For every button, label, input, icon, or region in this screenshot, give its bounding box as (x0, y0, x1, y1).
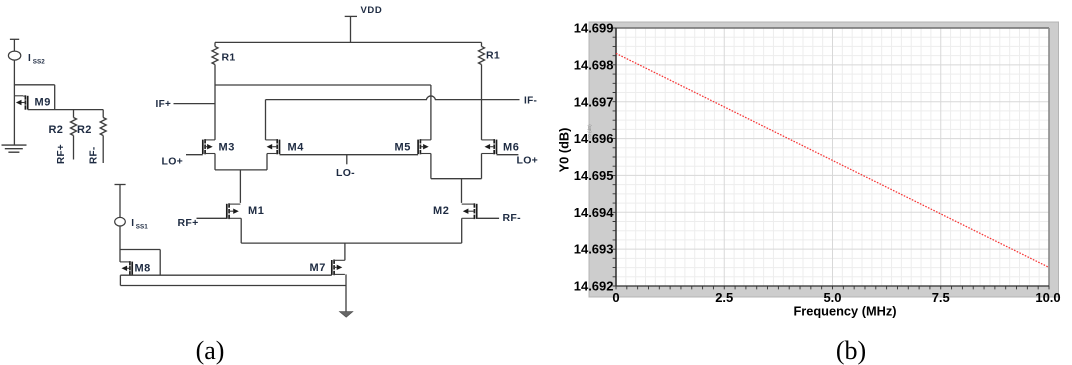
transistor M5 (417, 140, 419, 155)
resistor R2 right (102, 110, 104, 118)
node LO- wire (280, 154, 419, 156)
svg-text:M2: M2 (433, 205, 449, 217)
svg-text:Y0 (dB): Y0 (dB) (557, 128, 572, 173)
node LO+ right (497, 154, 519, 156)
svg-text:RF-: RF- (89, 146, 100, 164)
red trace Y0 vs frequency (616, 53, 1049, 267)
svg-text:M1: M1 (248, 205, 264, 217)
VDD supply (345, 15, 357, 17)
svg-text:14.692: 14.692 (574, 279, 614, 294)
wire gate bus M8 to M7 (120, 274, 331, 276)
wire M9 gate stub (14, 95, 23, 97)
svg-text:(b): (b) (836, 336, 866, 365)
node IF- wire with hop (266, 96, 520, 100)
resistor R1 right (481, 42, 483, 46)
svg-text:I: I (131, 218, 134, 229)
svg-text:R2: R2 (77, 124, 92, 136)
plot frame (616, 27, 1049, 29)
svg-text:M7: M7 (310, 262, 326, 274)
transistor M7 (331, 260, 333, 275)
resistor R1 left (214, 42, 216, 46)
svg-text:14.697: 14.697 (574, 94, 614, 109)
svg-text:0: 0 (612, 290, 619, 305)
wire right R1 to M6 drain (481, 65, 483, 140)
transistor M1 (226, 204, 228, 219)
svg-text:R1: R1 (486, 50, 500, 62)
svg-text:RF+: RF+ (178, 217, 199, 229)
wire M3/M4 common source (214, 154, 216, 170)
plot outer gray panel (589, 22, 1059, 297)
svg-text:Y0 (dB): Y0 (dB) (587, 124, 592, 140)
svg-text:7.5: 7.5 (932, 290, 950, 305)
svg-text:M3: M3 (219, 142, 235, 154)
svg-text:R1: R1 (222, 52, 236, 64)
ground arrow (339, 312, 353, 318)
svg-text:10.0: 10.0 (1035, 290, 1060, 305)
svg-text:SS1: SS1 (136, 223, 148, 230)
node RF- (477, 217, 499, 219)
svg-text:LO+: LO+ (162, 155, 184, 167)
wire left R1 to M3 drain (214, 65, 216, 140)
top supply rail (215, 41, 482, 43)
wire M5/M6 common source (430, 154, 432, 179)
transistor M4 (279, 140, 281, 155)
transistor M2 (476, 204, 478, 219)
current source ISS1 (115, 217, 126, 226)
svg-text:14.695: 14.695 (574, 168, 614, 183)
svg-text:IF-: IF- (524, 95, 537, 106)
svg-text:M8: M8 (135, 263, 151, 275)
wire tail to M7 drain (344, 243, 346, 260)
wire ISS1 down (119, 226, 121, 250)
svg-text:M6: M6 (503, 142, 519, 154)
node RF- bias (89, 146, 100, 164)
svg-text:Frequency (MHz): Frequency (MHz) (793, 304, 896, 319)
svg-text:LO-: LO- (336, 167, 355, 179)
svg-text:IF+: IF+ (156, 99, 172, 110)
wire tail to M2 drain (461, 179, 463, 203)
svg-text:M4: M4 (288, 142, 305, 154)
svg-text:SS2: SS2 (33, 59, 45, 66)
ground (2, 144, 27, 146)
y axis title (557, 128, 572, 173)
wire left output node across to M5 drain (215, 84, 431, 86)
transistor M6 (496, 140, 498, 155)
svg-text:R2: R2 (49, 124, 64, 136)
wire M1/M2 common source (240, 218, 242, 243)
wire M9 drain loop (14, 84, 55, 86)
svg-text:2.5: 2.5 (715, 290, 733, 305)
resistor R2 left (73, 110, 75, 118)
wire tail to M1 drain (239, 170, 241, 203)
power bar top of ISS1 (115, 184, 126, 186)
svg-text:14.698: 14.698 (574, 57, 614, 72)
svg-text:M9: M9 (35, 97, 51, 109)
wire M4 drain up to IF- (265, 100, 267, 140)
svg-text:RF-: RF- (503, 212, 522, 224)
wire ISS2 down (13, 60, 15, 85)
svg-text:14.694: 14.694 (574, 205, 615, 220)
svg-text:(a): (a) (196, 336, 225, 365)
wire bias rail to R2s (28, 109, 104, 111)
transistor M3 (202, 140, 204, 155)
svg-text:M5: M5 (395, 142, 411, 154)
node RF+ bias (56, 144, 67, 164)
svg-text:14.696: 14.696 (574, 131, 614, 146)
wire M8 gate stub (119, 250, 121, 262)
svg-text:14.699: 14.699 (574, 21, 614, 36)
wire M8 drain loop (120, 249, 160, 251)
transistor M8 (131, 262, 133, 276)
transistor M9 (27, 96, 29, 110)
current source ISS2 (8, 51, 20, 60)
wire M7 source to ground (345, 274, 347, 311)
wire M9 gate column to ground (13, 85, 15, 145)
svg-text:VDD: VDD (361, 5, 383, 16)
power bar top of ISS2 (10, 38, 19, 40)
wire lower bus (119, 275, 121, 285)
svg-text:RF+: RF+ (56, 144, 67, 164)
svg-text:LO+: LO+ (517, 155, 539, 167)
svg-text:I: I (28, 53, 31, 64)
svg-text:14.693: 14.693 (574, 242, 614, 257)
